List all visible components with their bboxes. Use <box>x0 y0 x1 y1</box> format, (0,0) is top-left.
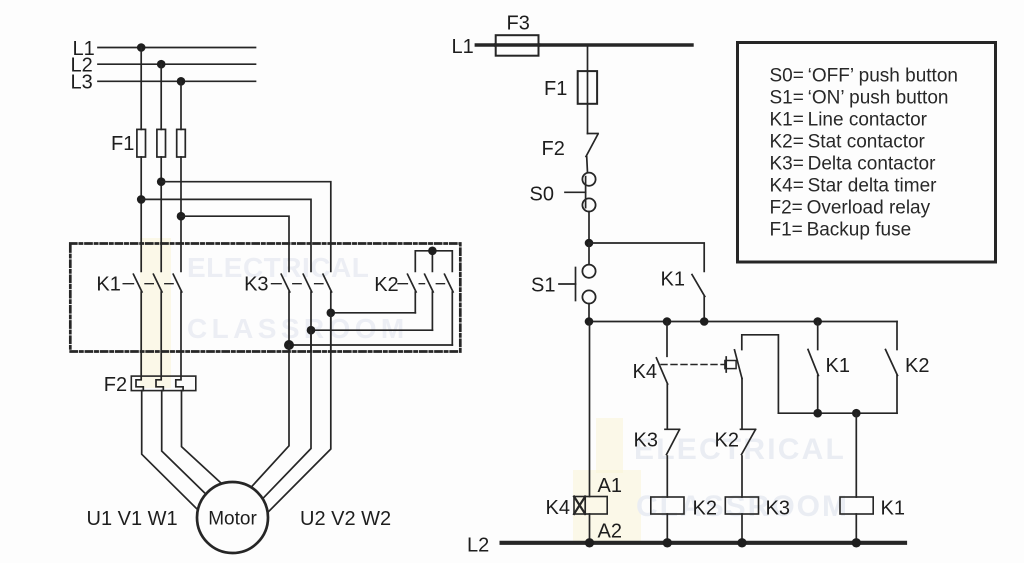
junction dot S1 bottom <box>585 317 594 326</box>
wire node B to K4 coil <box>589 322 591 497</box>
wire coil K2 to L2 <box>666 514 668 543</box>
bracket to timed contact <box>742 335 779 413</box>
svg-text:A1: A1 <box>598 475 622 497</box>
motor lead W1 <box>182 391 222 484</box>
branch wire L2 to K3 pole3 <box>161 182 331 272</box>
motor lead W2 <box>268 313 331 512</box>
coil K1 <box>840 497 873 514</box>
svg-text:U2 V2 W2: U2 V2 W2 <box>300 508 391 530</box>
fuse F1 pole1 <box>137 129 146 157</box>
delta link K2p1 to K3p3 <box>331 312 416 314</box>
wire S0 to node A <box>588 212 590 244</box>
watermark text right <box>634 433 849 523</box>
svg-text:U1 V1 W1: U1 V1 W1 <box>87 508 178 530</box>
wire fuse1 down to box <box>140 157 142 244</box>
coil K2 <box>651 497 684 514</box>
overload contact F2 <box>586 134 598 173</box>
node L1 line <box>98 47 256 49</box>
NC contact K3 <box>665 429 680 497</box>
contact K1 (right) <box>808 322 818 414</box>
legend box <box>738 43 996 263</box>
wire K1 coil branch <box>855 413 857 497</box>
NC contact K2 <box>741 429 756 497</box>
svg-text:A2: A2 <box>598 521 622 543</box>
contactor K2 pole2 contact <box>425 274 434 330</box>
junction dot K1 aux bottom <box>700 317 709 326</box>
wire F1 to F2 <box>587 104 589 134</box>
junction dot K1 coil branch <box>852 409 861 418</box>
branch wire L1 to K3 pole2 <box>141 199 311 271</box>
svg-text:K4= Star delta timer: K4= Star delta timer <box>770 176 938 197</box>
svg-text:CLASSROOM: CLASSROOM <box>187 313 409 344</box>
svg-text:F1= Backup fuse: F1= Backup fuse <box>770 220 912 241</box>
fuse F3 <box>496 35 539 56</box>
overload F2 body <box>131 376 196 391</box>
motor lead V1 <box>162 391 206 494</box>
watermark text left <box>187 252 409 344</box>
wire L2 to fuse <box>160 64 162 129</box>
svg-text:K1= Line contactor: K1= Line contactor <box>770 110 928 131</box>
junction dot K1 coil <box>852 538 861 547</box>
contactor K3 pole3 contact <box>323 274 332 351</box>
contact K2 (right) <box>886 322 898 414</box>
parallel bottom rail <box>778 412 897 414</box>
svg-text:K3: K3 <box>244 274 268 296</box>
coil K4 with timer box <box>574 497 607 515</box>
svg-text:K1: K1 <box>881 498 905 520</box>
svg-text:F2: F2 <box>104 374 127 396</box>
svg-text:K2: K2 <box>905 355 929 377</box>
contactor K2 pole1 contact <box>408 274 417 313</box>
wire node A to S1 <box>588 243 590 265</box>
svg-text:K2= Stat contactor: K2= Stat contactor <box>770 132 926 153</box>
svg-text:K2: K2 <box>693 498 717 520</box>
svg-text:F2= Overload relay: F2= Overload relay <box>770 198 931 219</box>
motor lead U1 <box>142 391 198 510</box>
motor lead U2 <box>251 345 289 487</box>
wire L3 to fuse <box>180 81 182 129</box>
overload F2 heater pole1 <box>136 352 143 391</box>
watermark highlight strip right <box>596 418 623 473</box>
svg-text:K2: K2 <box>374 274 398 296</box>
junction dot L2 <box>157 60 166 69</box>
svg-text:L3: L3 <box>71 72 93 94</box>
motor lead V2 <box>263 330 311 498</box>
control L1 bus <box>476 43 692 46</box>
junction dot K3p3 <box>327 309 336 318</box>
svg-text:F1: F1 <box>111 133 134 155</box>
svg-text:K1: K1 <box>96 274 120 296</box>
junction dot node A <box>585 239 594 248</box>
node B rail <box>589 321 897 323</box>
contactor K1 pole2 contact <box>153 244 162 352</box>
contactor K1 pole1 contact <box>133 244 142 352</box>
motor circle <box>197 482 268 553</box>
node L2 line <box>98 63 256 65</box>
junction dot pole2 branch <box>157 177 166 186</box>
delta link K2p3 to K3p1 <box>289 344 452 346</box>
wire timed contact down <box>741 379 743 429</box>
junction dot K3p1 <box>284 340 294 350</box>
contactor K3 pole2 contact <box>303 274 312 351</box>
K3 linkage dashes <box>272 283 323 285</box>
svg-text:F2: F2 <box>542 138 565 160</box>
junction dot pole1 branch <box>137 195 146 204</box>
junction dot K4 branch <box>663 317 672 326</box>
fuse F1 pole2 <box>157 129 166 157</box>
delta link K2p2 to K3p2 <box>311 329 432 331</box>
junction dot K1 contact top <box>813 317 822 326</box>
svg-text:F3: F3 <box>507 13 530 35</box>
mechanical link dashes <box>661 364 725 366</box>
svg-text:L1: L1 <box>452 36 474 58</box>
wire fuse3 down to box <box>180 157 182 244</box>
fuse F1 pole3 <box>177 129 186 157</box>
svg-text:ELECTRICAL: ELECTRICAL <box>187 252 369 283</box>
svg-text:K1: K1 <box>661 269 685 291</box>
contactor K2 pole3 contact <box>445 274 454 345</box>
junction dot pole3 branch <box>177 212 186 221</box>
svg-text:K3= Delta contactor: K3= Delta contactor <box>770 154 937 175</box>
svg-text:S1= ‘ON’ push button: S1= ‘ON’ push button <box>770 88 949 109</box>
watermark highlight strip left <box>140 238 171 388</box>
overload F2 heater pole2 <box>156 352 163 391</box>
junction dot K1 contact bottom <box>813 409 822 418</box>
wire fuse2 down to box <box>160 157 162 244</box>
K2 star bridge <box>415 251 452 272</box>
junction dot L3 <box>177 77 186 86</box>
dashed main-circuit box <box>70 244 460 352</box>
junction dot L1 <box>137 43 146 52</box>
contactor K3 pole1 contact <box>281 274 290 351</box>
wire node A to K1 aux <box>589 243 704 271</box>
junction dot K3 coil <box>737 538 746 547</box>
coil K3 <box>725 497 758 514</box>
K2 bridge middle stub <box>431 251 433 272</box>
overload F2 heater pole3 <box>176 352 183 391</box>
junction dot K2 coil <box>663 538 672 547</box>
L2 bus <box>502 541 905 545</box>
wire coil K3 to L2 <box>741 514 743 543</box>
push button S0 (NC) <box>565 173 596 212</box>
svg-text:F1: F1 <box>544 78 567 100</box>
svg-text:K3: K3 <box>634 430 658 452</box>
wire coil K4 to L2 <box>589 514 591 543</box>
wire bus to F1 <box>587 45 589 71</box>
node L3 line <box>98 80 256 82</box>
contactor K1 pole3 contact <box>173 244 182 352</box>
svg-text:K3: K3 <box>766 498 790 520</box>
svg-text:L2: L2 <box>467 535 489 557</box>
svg-text:S1: S1 <box>531 275 555 297</box>
contact K4 instantaneous <box>656 322 667 429</box>
K2 linkage dashes <box>398 283 445 285</box>
svg-text:S0= ‘OFF’ push button: S0= ‘OFF’ push button <box>770 66 958 87</box>
svg-text:K1: K1 <box>826 355 850 377</box>
wire L1 to fuse <box>140 48 142 130</box>
contact K1 aux <box>692 275 705 322</box>
svg-text:Motor: Motor <box>208 509 257 530</box>
svg-text:K4: K4 <box>546 497 570 519</box>
timed contact K4 <box>725 350 742 379</box>
push button S1 (NO) <box>559 265 596 304</box>
junction dot K4 coil <box>585 538 594 547</box>
junction dot K3p2 <box>307 326 316 335</box>
wire S1 to node B <box>588 304 590 322</box>
svg-text:K4: K4 <box>633 361 657 383</box>
wire coil K1 to L2 <box>855 514 857 543</box>
fuse F1 (control) <box>578 71 597 104</box>
svg-text:K2: K2 <box>715 430 739 452</box>
branch wire L3 to K3 pole1 <box>181 216 289 271</box>
junction dot K2 bridge <box>428 247 437 256</box>
svg-text:S0: S0 <box>530 184 554 206</box>
K1 linkage dashes <box>123 283 173 285</box>
svg-text:ELECTRICAL: ELECTRICAL <box>634 433 846 466</box>
legend text <box>770 66 958 241</box>
